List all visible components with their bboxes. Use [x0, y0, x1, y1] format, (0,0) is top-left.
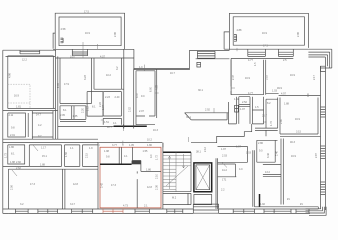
svg-text:1.5: 1.5 [255, 106, 259, 109]
svg-text:8.1: 8.1 [92, 106, 96, 109]
svg-text:4.0: 4.0 [150, 154, 153, 158]
svg-text:2.40: 2.40 [276, 151, 279, 156]
svg-text:49.9: 49.9 [277, 87, 282, 90]
svg-text:4.47: 4.47 [136, 93, 139, 98]
corridor bottom wall left [98, 142, 162, 144]
svg-text:3.42: 3.42 [101, 183, 104, 188]
room B left step [224, 32, 229, 49]
svg-text:8.2: 8.2 [267, 102, 271, 105]
room B4 [103, 118, 121, 124]
svg-text:2.2: 2.2 [221, 189, 225, 192]
svg-text:3.17: 3.17 [70, 203, 75, 206]
svg-text:4.73: 4.73 [123, 204, 128, 207]
main wall under room A [53, 49, 134, 58]
svg-text:26.7: 26.7 [262, 115, 267, 118]
svg-text:2.47: 2.47 [232, 75, 235, 80]
corridor stepped wall right [191, 124, 252, 143]
window left wing top [20, 50, 40, 54]
room B bottom main wall [224, 49, 308, 58]
svg-text:2.20: 2.20 [82, 108, 85, 113]
svg-text:4.97: 4.97 [281, 93, 286, 96]
bottom window 2 [38, 209, 58, 213]
vent box right of wardrobe [235, 105, 239, 112]
centre big room right wall [230, 58, 232, 94]
svg-text:1.03: 1.03 [246, 152, 251, 155]
svg-text:1.0: 1.0 [139, 66, 143, 69]
svg-text:4.88: 4.88 [237, 29, 242, 32]
svg-text:1.92: 1.92 [260, 203, 265, 206]
svg-text:1.5: 1.5 [254, 62, 257, 66]
bottom window 6 [233, 209, 254, 213]
svg-text:3.2: 3.2 [116, 66, 119, 70]
svg-text:17.5: 17.5 [84, 10, 89, 13]
bottom window 8 [296, 209, 309, 213]
svg-text:17.3: 17.3 [30, 183, 35, 186]
bottom window red unit [103, 209, 123, 213]
svg-text:16.9: 16.9 [291, 155, 296, 158]
corridor top thick wall [114, 125, 147, 127]
room C1 [231, 60, 266, 95]
svg-text:1.73: 1.73 [5, 153, 8, 158]
svg-text:9.7: 9.7 [38, 135, 42, 138]
svg-text:2.17: 2.17 [313, 75, 316, 80]
svg-text:2.39: 2.39 [57, 83, 60, 88]
small room A1 [8, 113, 26, 137]
svg-text:1.1: 1.1 [70, 147, 74, 150]
interior: room4/5 divider [136, 171, 138, 208]
elevator shaft [194, 163, 212, 192]
bottom sill line [8, 212, 310, 214]
svg-text:2.62: 2.62 [16, 167, 21, 170]
svg-text:16.9: 16.9 [262, 32, 267, 35]
right wall window hatch 0 [321, 107, 326, 117]
svg-text:2.02: 2.02 [129, 107, 132, 112]
bottom window 5 [135, 209, 150, 213]
svg-text:14.7: 14.7 [36, 113, 41, 116]
svg-text:6.00: 6.00 [150, 87, 153, 92]
svg-text:8.1: 8.1 [11, 153, 15, 156]
bottom-right section inner wall line [255, 206, 319, 208]
room B3 [103, 92, 121, 116]
svg-text:2.12: 2.12 [87, 106, 90, 111]
right wall window hatch 1 [321, 146, 326, 159]
svg-text:16.3: 16.3 [153, 129, 158, 132]
projecting room A inner [59, 17, 121, 46]
stair landing below [163, 193, 191, 204]
svg-text:4.07: 4.07 [100, 56, 105, 59]
small room A1b right [27, 113, 29, 137]
svg-text:38.1: 38.1 [196, 151, 201, 154]
svg-text:1.02: 1.02 [234, 98, 239, 101]
svg-text:1.72: 1.72 [270, 121, 273, 126]
svg-text:4.77: 4.77 [248, 59, 253, 62]
svg-text:1.86: 1.86 [9, 146, 14, 149]
svg-text:9.8: 9.8 [106, 156, 110, 159]
svg-text:M.2: M.2 [172, 197, 177, 200]
svg-text:1T1: 1T1 [222, 179, 227, 182]
svg-text:0.8: 0.8 [307, 93, 310, 97]
stairwell box [163, 143, 191, 209]
centre-top wall [189, 49, 229, 51]
top-left room [8, 56, 54, 109]
room B2 [94, 49, 124, 128]
lobby left wall double [216, 158, 218, 209]
svg-text:2.11: 2.11 [9, 114, 14, 117]
svg-text:4.2: 4.2 [38, 124, 42, 127]
machine room below elevator [194, 195, 212, 205]
svg-text:36.1: 36.1 [186, 116, 191, 119]
interior: top row divider [119, 147, 132, 164]
vent box [197, 62, 201, 67]
svg-text:2.23: 2.23 [105, 96, 110, 99]
svg-text:12.8: 12.8 [73, 183, 78, 186]
wall y110.6 [3, 109, 58, 111]
interior: thick L wall [100, 163, 132, 165]
wardrobe row [185, 113, 229, 120]
svg-text:1.86: 1.86 [146, 169, 151, 172]
svg-text:2.40: 2.40 [115, 96, 120, 99]
svg-text:1.80: 1.80 [147, 144, 152, 147]
corridor walls above stair [162, 143, 164, 148]
svg-text:1.03: 1.03 [272, 90, 277, 93]
terrace end box [321, 66, 332, 71]
recess between A and centre [134, 49, 190, 69]
outer left wall [2, 50, 4, 213]
svg-text:17.3: 17.3 [111, 184, 116, 187]
right outer wall double [321, 66, 326, 210]
room B hatch window [234, 35, 237, 42]
svg-text:2.01: 2.01 [10, 134, 15, 137]
svg-text:4.1: 4.1 [124, 155, 128, 158]
lobby right wall double [253, 150, 255, 207]
svg-text:16.9: 16.9 [14, 95, 19, 98]
svg-text:10.2: 10.2 [147, 139, 152, 142]
room A hatch window [61, 38, 64, 43]
svg-text:9.0: 9.0 [141, 95, 145, 98]
dashed loft area [8, 84, 30, 108]
svg-text:1.9: 1.9 [89, 147, 93, 150]
bath cluster centre-right [236, 97, 263, 124]
svg-text:3.23: 3.23 [84, 75, 87, 80]
svg-text:15.1: 15.1 [42, 155, 47, 158]
room above lobby [218, 147, 248, 177]
svg-text:4.38: 4.38 [156, 85, 159, 90]
projecting room B inner [233, 17, 304, 45]
wall x228.5 [229, 102, 237, 124]
left wing inner top line [6, 55, 56, 57]
red outline [100, 147, 161, 208]
svg-text:12.2: 12.2 [22, 59, 27, 62]
svg-text:16.7: 16.7 [170, 72, 175, 75]
bottom-left room [8, 169, 98, 209]
svg-text:2.10: 2.10 [156, 174, 159, 179]
svg-text:4.77: 4.77 [248, 92, 253, 95]
svg-text:12.8: 12.8 [147, 186, 152, 189]
svg-text:41.2: 41.2 [222, 169, 227, 172]
svg-text:4.96: 4.96 [9, 73, 12, 78]
bottom-left corner [3, 209, 9, 213]
svg-text:1.51: 1.51 [104, 121, 109, 124]
svg-text:4.58: 4.58 [61, 28, 66, 31]
bottom window stair [167, 209, 183, 213]
entrance window steps [197, 51, 215, 58]
svg-text:1.55: 1.55 [143, 150, 148, 153]
red unit top black wall [98, 142, 162, 144]
svg-text:3.2: 3.2 [20, 203, 24, 206]
svg-text:2.96: 2.96 [114, 32, 117, 37]
svg-text:2.22: 2.22 [99, 102, 102, 107]
svg-text:1.81: 1.81 [16, 106, 21, 109]
svg-text:1.07: 1.07 [102, 105, 105, 110]
bottom-right nested corner [306, 207, 327, 216]
svg-text:4.1: 4.1 [113, 122, 117, 125]
svg-text:1.97: 1.97 [221, 148, 226, 151]
bottom window 1 [15, 209, 28, 213]
stair diagonal break [166, 166, 188, 186]
window right-1 [248, 49, 266, 56]
svg-text:2.56: 2.56 [11, 185, 14, 190]
entrance landing wall [196, 58, 230, 60]
svg-text:2.96: 2.96 [297, 32, 300, 37]
svg-text:1.17: 1.17 [41, 146, 46, 149]
svg-text:1.56: 1.56 [65, 152, 68, 157]
small room A2 [8, 145, 25, 164]
door swings [12, 145, 227, 176]
svg-text:46.3: 46.3 [290, 141, 295, 144]
svg-text:9.0: 9.0 [259, 150, 263, 153]
svg-text:1.88: 1.88 [284, 103, 289, 106]
bath cluster below B1 [60, 106, 86, 120]
window under room A [72, 49, 87, 55]
svg-text:16.9: 16.9 [290, 74, 295, 77]
svg-text:4.0: 4.0 [239, 168, 243, 171]
svg-text:3.42: 3.42 [267, 153, 270, 158]
projecting room A outer [55, 13, 124, 49]
svg-text:2.5: 2.5 [283, 59, 287, 62]
svg-text:3.07: 3.07 [70, 56, 75, 59]
big room B1 [60, 58, 92, 104]
svg-text:1.35: 1.35 [73, 115, 78, 118]
centre room top wall [157, 69, 190, 118]
svg-text:16.9: 16.9 [295, 118, 300, 121]
stair steps [163, 156, 191, 190]
divider double wall [56, 50, 58, 139]
interior: room3 bottom wall [141, 170, 161, 172]
right wall window hatch 2 [321, 182, 326, 195]
svg-text:2.86: 2.86 [258, 142, 263, 145]
svg-text:2.87: 2.87 [315, 153, 318, 158]
bottom outer wall [8, 208, 318, 210]
svg-text:1.88: 1.88 [10, 161, 15, 164]
projecting room B outer [229, 13, 308, 50]
svg-text:1.88: 1.88 [40, 164, 45, 167]
svg-text:2.1: 2.1 [144, 204, 148, 207]
svg-text:12.7: 12.7 [107, 126, 112, 129]
svg-text:16.9: 16.9 [245, 77, 250, 80]
svg-text:13.2: 13.2 [265, 171, 270, 174]
thick wall right of lobby [259, 194, 261, 207]
svg-text:2.03: 2.03 [222, 155, 227, 158]
room above corridor [87, 92, 103, 117]
svg-text:2.52: 2.52 [242, 101, 247, 104]
bottom window 3 [72, 209, 93, 213]
svg-text:2.15: 2.15 [86, 153, 89, 158]
wall y 166-169 [3, 166, 98, 169]
svg-text:2.36: 2.36 [156, 185, 159, 190]
stair divider [175, 152, 177, 191]
svg-text:17.9: 17.9 [64, 83, 69, 86]
entrance steps bottom [193, 204, 218, 213]
svg-text:1.72: 1.72 [156, 155, 159, 160]
svg-text:2.07: 2.07 [139, 110, 144, 113]
room A left step [53, 33, 55, 49]
narrow room door [136, 116, 155, 125]
svg-text:3.77: 3.77 [112, 144, 117, 147]
svg-text:9.8: 9.8 [11, 127, 15, 130]
svg-text:30.1: 30.1 [198, 89, 203, 92]
room 4.2 walls [32, 111, 53, 140]
svg-text:2.05: 2.05 [60, 114, 65, 117]
svg-text:2.12: 2.12 [204, 147, 207, 152]
svg-text:2.80: 2.80 [280, 119, 283, 124]
narrow room walls [134, 69, 157, 129]
window right-2 [278, 49, 293, 56]
svg-text:8.1: 8.1 [63, 109, 67, 112]
svg-text:1.98: 1.98 [104, 150, 109, 153]
row2 rooms [29, 142, 98, 169]
svg-text:3.18: 3.18 [266, 75, 269, 80]
room C2 top right [266, 94, 321, 96]
rooms right column [255, 98, 321, 137]
svg-text:2.82: 2.82 [16, 161, 21, 164]
svg-text:9.0: 9.0 [263, 121, 267, 124]
svg-text:16.9: 16.9 [85, 32, 90, 35]
svg-text:6.97: 6.97 [236, 146, 241, 149]
svg-text:1.97: 1.97 [240, 108, 245, 111]
right rooms mid [255, 98, 278, 129]
top-right terrace nested [308, 49, 331, 55]
left wing top wall [3, 49, 56, 51]
svg-text:1.05: 1.05 [129, 144, 134, 147]
svg-text:17.5: 17.5 [263, 45, 268, 48]
svg-text:2.92: 2.92 [205, 109, 210, 112]
wall y139-142.4 [3, 139, 98, 142]
svg-text:3.15: 3.15 [296, 131, 301, 134]
bottom window 7 [264, 209, 291, 213]
stair arrows [168, 154, 184, 189]
svg-text:10.2: 10.2 [106, 74, 111, 77]
